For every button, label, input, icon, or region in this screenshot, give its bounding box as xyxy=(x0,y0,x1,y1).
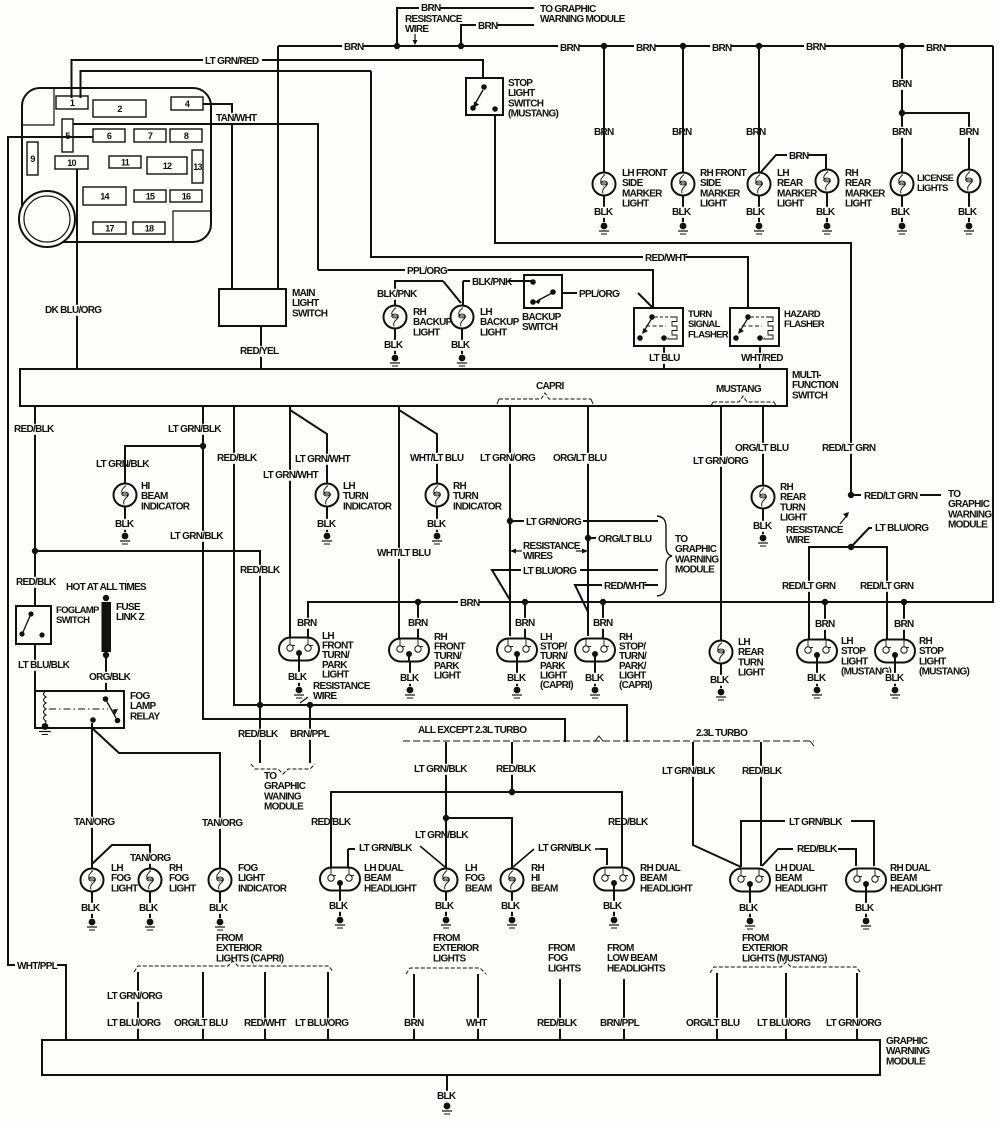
wire BLK RH capri ground stub xyxy=(594,661,596,686)
label RED/BLK xyxy=(535,1018,578,1029)
svg-text:11: 11 xyxy=(121,158,130,168)
junction RED/BLK fog circuit branch xyxy=(32,548,38,554)
svg-text:LIGHT: LIGHT xyxy=(413,327,440,338)
lamp RH fog light xyxy=(139,869,162,892)
svg-text:LT BLU/ORG: LT BLU/ORG xyxy=(875,523,929,534)
ground LH dual turbo xyxy=(747,918,754,925)
lamp LH fog light xyxy=(81,869,104,892)
svg-text:12: 12 xyxy=(163,161,172,171)
svg-text:TAN/ORG: TAN/ORG xyxy=(130,853,171,864)
label BLK xyxy=(814,207,835,218)
stop light switch pin output xyxy=(492,106,498,112)
wire BLK LH fog beam ground stub xyxy=(445,892,447,916)
label BLK xyxy=(737,903,758,914)
wire LT GRN/BLK drop (turbo) xyxy=(693,742,741,867)
label LT BLU/BLK xyxy=(16,660,75,671)
svg-text:BRN: BRN xyxy=(712,43,732,54)
turn signal flasher arm xyxy=(644,318,652,331)
wire BRN drop to LH front side marker xyxy=(603,46,605,172)
wire RED/LT GRN to RH stop light mustang xyxy=(851,547,887,639)
svg-text:HEADLIGHT: HEADLIGHT xyxy=(775,883,828,894)
ground RH front turn/park xyxy=(407,687,414,694)
wire LT GRN/BLK label line LH (turbo) xyxy=(741,821,785,867)
label BLK xyxy=(79,903,100,914)
svg-text:MODULE: MODULE xyxy=(264,802,304,813)
lamp LH dual beam headlight turbo xyxy=(730,869,770,892)
label RED/WHT xyxy=(242,1018,285,1029)
junction LT GRN/BLK branch xyxy=(443,815,449,821)
wire module input 1 (LT BLU/ORG) xyxy=(137,972,139,1040)
junction park bus LH capri stop xyxy=(522,599,528,605)
wire TAN/WHT fuse4 to main light switch xyxy=(203,104,232,289)
turn signal flasher dashed internal xyxy=(655,316,670,318)
relay contact arm xyxy=(106,700,116,718)
svg-text:LIGHT: LIGHT xyxy=(434,670,461,681)
wire TAN/ORG branch to fog light indicator xyxy=(92,728,220,868)
wire BRN/PPL drop to warning module xyxy=(309,705,311,763)
wire LT BLU/ORG to LH capri stop lamp xyxy=(492,570,658,600)
ground LH front turn/park xyxy=(296,687,303,694)
lamp LH turn indicator xyxy=(316,484,339,507)
svg-text:BLK: BLK xyxy=(81,903,101,914)
svg-text:WARNING MODULE: WARNING MODULE xyxy=(540,14,626,25)
label LT GRN/ORG capri xyxy=(478,453,537,464)
label LT BLU/ORG capri xyxy=(521,566,580,577)
wire BRN drop to LH rear marker xyxy=(758,46,760,172)
ground RH front side marker xyxy=(680,223,687,230)
svg-text:FLASHER: FLASHER xyxy=(784,319,825,330)
svg-text:WHT/LT BLU: WHT/LT BLU xyxy=(377,548,431,559)
svg-text:DK BLU/ORG: DK BLU/ORG xyxy=(45,305,102,316)
wire BLK RH rear turn ground stub xyxy=(762,509,764,534)
svg-text:BRN: BRN xyxy=(344,42,364,53)
wire WHT/LT BLU multifunction to RH front turn xyxy=(398,406,400,638)
svg-text:INDICATOR: INDICATOR xyxy=(238,883,288,894)
fuse 16 xyxy=(170,190,202,202)
label DK BLU/ORG xyxy=(43,305,102,316)
junction license branch xyxy=(899,110,905,116)
svg-text:BLK: BLK xyxy=(672,207,692,218)
wire resistance wire tick xyxy=(300,697,308,703)
wire BLK LH fog ground stub xyxy=(91,892,93,918)
svg-text:BRN: BRN xyxy=(408,618,428,629)
fuse 13 xyxy=(192,150,203,183)
wire LT BLU flasher to multifunction switch xyxy=(663,346,665,369)
svg-text:LIGHT: LIGHT xyxy=(622,199,649,210)
label LT GRN/ORG mustang xyxy=(691,456,750,467)
svg-text:RED/BLK: RED/BLK xyxy=(16,577,57,588)
wire BLK RH turn ground stub xyxy=(436,507,438,532)
label BRN/PPL xyxy=(598,1018,641,1029)
label BRN/PPL module xyxy=(288,729,331,740)
label BRN bus 4 xyxy=(710,43,731,54)
svg-text:TAN/ORG: TAN/ORG xyxy=(202,818,243,829)
wire module input 10 (LT BLU/ORG) xyxy=(785,973,787,1040)
label BLK xyxy=(207,903,228,914)
wire RED/BLK drop (turbo) xyxy=(760,742,762,866)
svg-text:BLK: BLK xyxy=(507,673,527,684)
wire resistance wires arrow right xyxy=(576,550,586,552)
bracket from exterior lights capri (dashed) xyxy=(134,961,333,972)
svg-text:LIGHT: LIGHT xyxy=(700,199,727,210)
label BLK xyxy=(601,901,622,912)
wire TAN/ORG relay to LH fog light xyxy=(91,723,93,868)
wire RED/BLK label line RH (turbo) xyxy=(838,849,856,866)
svg-text:LIGHTS: LIGHTS xyxy=(917,183,948,194)
wire DK BLU/ORG fuse10 to multifunction switch xyxy=(76,169,78,369)
lamp LH front turn/park light xyxy=(279,638,319,661)
bracket from exterior lights std (dashed) xyxy=(406,968,486,974)
ground RH turn indicator xyxy=(434,533,441,540)
svg-text:BRN: BRN xyxy=(478,21,498,32)
svg-text:LT GRN/BLK: LT GRN/BLK xyxy=(414,764,468,775)
svg-text:13: 13 xyxy=(193,162,202,172)
svg-text:BLK: BLK xyxy=(891,207,911,218)
svg-text:LT GRN/RED: LT GRN/RED xyxy=(205,56,259,67)
svg-text:LT BLU/ORG: LT BLU/ORG xyxy=(107,1018,161,1029)
svg-text:LT BLU/ORG: LT BLU/ORG xyxy=(295,1018,349,1029)
lamp LH stop/turn/park light capri xyxy=(497,639,537,662)
junction BRN bus at RH front marker xyxy=(680,43,686,49)
svg-text:TAN/WHT: TAN/WHT xyxy=(216,113,257,124)
svg-text:RED/LT GRN: RED/LT GRN xyxy=(782,581,836,592)
wire BLK RH front turn ground stub xyxy=(409,661,411,686)
svg-text:CAPRI: CAPRI xyxy=(536,381,565,392)
svg-text:PPL/ORG: PPL/ORG xyxy=(579,289,620,300)
fuse 12 xyxy=(147,157,187,174)
relay contact pin top xyxy=(103,696,109,702)
label RED/BLK fog switch xyxy=(14,577,57,588)
svg-text:RED/BLK: RED/BLK xyxy=(311,817,352,828)
svg-text:RED/BLK: RED/BLK xyxy=(797,844,838,855)
lamp RH stop/turn/park light capri xyxy=(575,639,615,662)
label BLK xyxy=(382,340,403,351)
svg-text:HEADLIGHT: HEADLIGHT xyxy=(364,883,417,894)
svg-text:2: 2 xyxy=(117,104,122,114)
svg-text:ORG/LT BLU: ORG/LT BLU xyxy=(735,443,789,454)
wire RED/BLK drop (std) xyxy=(511,742,513,792)
stop light switch U1 (mustang) box xyxy=(466,78,503,115)
relay contact pin output xyxy=(90,717,96,723)
svg-text:LT GRN/ORG: LT GRN/ORG xyxy=(826,1018,882,1029)
svg-text:LT GRN/BLK: LT GRN/BLK xyxy=(415,830,469,841)
svg-text:WIRES: WIRES xyxy=(523,551,553,562)
wire BLK LH front turn ground stub xyxy=(298,660,300,686)
ground license light 1 xyxy=(899,223,906,230)
wire LT GRN/WHT multifunction to LH turn indicator xyxy=(290,406,327,484)
fuse 6 xyxy=(93,129,125,142)
wire BLK fog indicator ground stub xyxy=(219,892,221,918)
wire TAN/WHT fuse5 feed to PPL/ORG line xyxy=(73,124,318,270)
fuse 1 xyxy=(56,96,88,109)
lamp LH fog beam xyxy=(435,869,458,892)
ground LH stop mustang xyxy=(814,687,821,694)
wire BRN spur to graphic warning module (upper) xyxy=(397,8,534,46)
relay contact moving end xyxy=(115,718,121,724)
label BLK xyxy=(956,207,977,218)
ground RH backup light xyxy=(392,355,399,362)
wire LT GRN/ORG capri drop xyxy=(509,406,511,636)
svg-text:ORG/BLK: ORG/BLK xyxy=(89,672,132,683)
wire arrow resistance wire pointer xyxy=(414,34,416,44)
label LT GRN/ORG xyxy=(105,991,164,1002)
lamp LH backup light xyxy=(451,306,474,329)
label BLK xyxy=(592,207,613,218)
wire module input 8 (BRN/PPL) xyxy=(623,979,625,1040)
wire BRN branch to second license lamp xyxy=(902,113,969,169)
foglamp switch box xyxy=(16,606,51,644)
wire BLK RH fog ground stub xyxy=(149,892,151,918)
wire BRN link LH rear to RH rear marker xyxy=(761,155,826,172)
wire RED/LT GRN to LH stop light mustang xyxy=(809,547,851,639)
relay coil xyxy=(44,691,47,725)
svg-text:BLK/PNK: BLK/PNK xyxy=(377,289,418,300)
svg-text:LT GRN/BLK: LT GRN/BLK xyxy=(96,459,150,470)
wire right border BRN down to park bus xyxy=(992,46,994,603)
ground license light 2 xyxy=(966,223,973,230)
wire LT GRN/BLK drop (std) xyxy=(445,742,447,868)
lamp RH rear turn light xyxy=(752,486,775,509)
wire RED/BLK label line LH (turbo) xyxy=(762,849,793,866)
svg-text:BLK: BLK xyxy=(501,901,521,912)
fuse 9 xyxy=(27,142,38,175)
label BLK module xyxy=(435,1091,456,1102)
svg-text:BRN: BRN xyxy=(746,127,766,138)
wire BLK LH mustang ground stub xyxy=(816,662,818,686)
wire fuse1 second feed to RED/WHT riser xyxy=(81,71,372,98)
fuse 18 xyxy=(133,222,165,234)
svg-text:BLK: BLK xyxy=(807,673,827,684)
svg-text:BLK: BLK xyxy=(739,903,759,914)
svg-text:LIGHT: LIGHT xyxy=(169,883,196,894)
lamp LH rear turn light xyxy=(710,641,733,664)
wire LT GRN/BLK multifunction down xyxy=(203,406,565,742)
svg-text:(MUSTANG): (MUSTANG) xyxy=(919,667,970,678)
label RED/LT GRN LH stop xyxy=(780,581,839,592)
turn signal flasher pin bottom xyxy=(661,335,667,341)
wire BLK LH front marker ground stub xyxy=(603,196,605,222)
svg-text:BRN/PPL: BRN/PPL xyxy=(600,1018,640,1029)
svg-text:6: 6 xyxy=(107,131,112,141)
wire module input 3 (RED/WHT) xyxy=(264,972,266,1040)
lamp LH dual beam headlight xyxy=(320,868,360,891)
wire BRN drop to RH front side marker xyxy=(682,46,684,172)
wire LT GRN/RED from fuse 1 to stop light switch xyxy=(72,60,484,98)
foglamp switch pin bottom-left xyxy=(19,631,24,636)
wire BLK RH hi beam ground stub xyxy=(511,892,513,916)
fuse 15 xyxy=(134,190,166,202)
lamp LH front side marker light xyxy=(593,173,616,196)
svg-text:BRN/PPL: BRN/PPL xyxy=(290,729,330,740)
ground RH hi beam xyxy=(509,917,516,924)
lamp LH rear marker light xyxy=(748,173,771,196)
label LT GRN/RED xyxy=(203,56,262,67)
svg-text:INDICATOR: INDICATOR xyxy=(141,501,191,512)
svg-text:WHT/LT BLU: WHT/LT BLU xyxy=(410,453,464,464)
fuse 7 xyxy=(134,129,166,142)
label WHT xyxy=(464,1018,485,1029)
lamp license light 2 xyxy=(958,170,981,193)
label BRN (top spur) xyxy=(419,3,440,14)
label BRN bus 1 xyxy=(342,42,363,53)
lamp RH backup light xyxy=(384,306,407,329)
svg-text:ORG/LT BLU: ORG/LT BLU xyxy=(553,453,607,464)
label BLK xyxy=(751,521,772,532)
label BLK/PNK left xyxy=(375,289,418,300)
label LT BLU/ORG xyxy=(293,1018,352,1029)
hazard flasher pin bottom xyxy=(757,335,763,341)
wire ORG/LT BLU to module brace xyxy=(588,537,650,539)
svg-text:BLK: BLK xyxy=(603,901,623,912)
wire BLK/PNK backup switch to LH backup light xyxy=(509,280,533,282)
lamp RH hi beam xyxy=(501,869,524,892)
fuse 2 xyxy=(93,100,146,117)
svg-text:LT GRN/ORG: LT GRN/ORG xyxy=(693,456,749,467)
wire module input 2 (ORG/LT BLU) xyxy=(202,972,204,1040)
svg-text:BLK: BLK xyxy=(451,340,471,351)
svg-text:RED/BLK: RED/BLK xyxy=(742,766,783,777)
junction RED/LT GRN module spur xyxy=(848,492,854,498)
svg-text:(CAPRI): (CAPRI) xyxy=(619,680,652,691)
svg-text:LIGHT: LIGHT xyxy=(738,668,765,679)
svg-text:HEADLIGHT: HEADLIGHT xyxy=(640,883,693,894)
hazard flasher box xyxy=(730,308,779,346)
svg-text:MODULE: MODULE xyxy=(948,520,988,531)
svg-text:LT GRN/BLK: LT GRN/BLK xyxy=(538,843,592,854)
ground RH dual turbo xyxy=(863,918,870,925)
svg-text:LIGHTS: LIGHTS xyxy=(548,963,581,974)
label WHT/RED xyxy=(739,353,782,364)
ground RH fog light xyxy=(147,919,154,926)
brace to graphic warning module (capri group) xyxy=(657,516,672,596)
label RED/BLK xyxy=(12,424,55,435)
label LT GRN/BLK std xyxy=(412,764,471,775)
svg-text:LT GRN/ORG: LT GRN/ORG xyxy=(107,991,163,1002)
label BRN RH front turn xyxy=(406,618,427,629)
svg-text:2.3L TURBO: 2.3L TURBO xyxy=(696,728,748,739)
ground LH capri stop lamp xyxy=(514,687,521,694)
svg-text:BRN: BRN xyxy=(636,43,656,54)
svg-text:LINK Z: LINK Z xyxy=(116,612,145,623)
label BLK xyxy=(670,207,691,218)
svg-text:15: 15 xyxy=(146,192,155,202)
svg-text:LIGHTS: LIGHTS xyxy=(433,953,466,964)
wire BRN drop LH capri stop xyxy=(524,602,526,639)
svg-text:LT GRN/BLK: LT GRN/BLK xyxy=(789,817,843,828)
lamp RH front side marker light xyxy=(672,173,695,196)
lamp RH rear marker light xyxy=(816,170,839,193)
foglamp switch pin top xyxy=(28,611,33,616)
main light switch box xyxy=(219,289,286,326)
svg-text:BRN: BRN xyxy=(404,1018,424,1029)
svg-text:BLK: BLK xyxy=(437,1091,457,1102)
relay dash-dot link xyxy=(49,708,108,710)
label LT GRN/BLK turbo xyxy=(660,766,719,777)
resistor hazard flasher heater xyxy=(764,317,773,339)
label BLK xyxy=(315,519,336,530)
junction RED/LT GRN stop split xyxy=(848,544,854,550)
junction park bus RH capri stop xyxy=(600,599,606,605)
label BRN bus 3 xyxy=(634,43,655,54)
wire LT GRN/ORG mustang to LH rear turn xyxy=(720,406,722,640)
svg-text:BRN: BRN xyxy=(815,619,835,630)
wire BLK LH turbo ground stub xyxy=(749,891,751,917)
svg-text:LT GRN/BLK: LT GRN/BLK xyxy=(359,843,413,854)
wire BRN drop LH mustang stop xyxy=(824,602,826,640)
svg-text:HOT AT ALL TIMES: HOT AT ALL TIMES xyxy=(66,582,147,593)
fuse 11 xyxy=(109,156,141,168)
svg-text:(CAPRI): (CAPRI) xyxy=(540,680,573,691)
label ORG/BLK xyxy=(87,672,130,683)
hazard flasher pin left xyxy=(733,335,739,341)
svg-text:RED/WHT: RED/WHT xyxy=(645,253,687,264)
svg-text:BRN: BRN xyxy=(892,79,912,90)
wire BRN bus (top) xyxy=(278,45,993,47)
wire module input 6 (WHT) xyxy=(477,974,479,1040)
svg-text:TAN/ORG: TAN/ORG xyxy=(74,817,115,828)
hazard flasher pin top xyxy=(745,314,751,320)
wire BRN drop RH mustang stop xyxy=(903,602,905,640)
graphic warning module box xyxy=(42,1040,880,1075)
wire LT BLU/ORG diagonal to module xyxy=(851,528,872,547)
svg-text:BLK: BLK xyxy=(209,903,229,914)
svg-text:BRN: BRN xyxy=(460,598,480,609)
svg-text:BRN: BRN xyxy=(560,43,580,54)
ground LH dual headlight xyxy=(337,917,344,924)
wire LT GRN/BLK pointer RH hi beam xyxy=(513,849,534,867)
wire BLK LH rear marker ground stub xyxy=(758,196,760,222)
fuse 10 xyxy=(55,156,88,169)
lamp RH turn indicator xyxy=(426,484,449,507)
svg-text:BLK: BLK xyxy=(317,519,337,530)
svg-text:BLK: BLK xyxy=(885,673,905,684)
wire BLK LH backup ground stub xyxy=(461,329,463,354)
svg-text:LIGHT: LIGHT xyxy=(111,883,138,894)
label BRN LH front turn xyxy=(295,618,316,629)
label TAN/WHT xyxy=(214,113,257,124)
lamp hi beam indicator xyxy=(114,484,137,507)
wire BLK RH backup ground stub xyxy=(394,329,396,354)
svg-text:BLK: BLK xyxy=(855,903,875,914)
wire WHT/PPL left border to module xyxy=(57,965,66,1040)
svg-text:LT GRN/ORG: LT GRN/ORG xyxy=(526,517,582,528)
svg-text:LT GRN/WHT: LT GRN/WHT xyxy=(295,454,351,465)
wire BLK LH capri ground stub xyxy=(516,661,518,686)
hazard flasher dashed internal xyxy=(751,316,766,318)
junction LT GRN/ORG module line xyxy=(507,518,513,524)
label BRN RH mustang xyxy=(892,619,913,630)
svg-text:FLASHER: FLASHER xyxy=(688,329,729,340)
svg-text:RED/YEL: RED/YEL xyxy=(240,346,279,357)
resistor turn signal flasher heater xyxy=(668,317,677,339)
label BLK xyxy=(433,901,454,912)
junction BRN bus at LH rear marker xyxy=(756,43,762,49)
stop light switch contact arm xyxy=(475,90,483,104)
wire RED/BLK multifunction to headlight bus xyxy=(234,406,627,742)
svg-text:WHT/RED: WHT/RED xyxy=(741,353,783,364)
label LT GRN/ORG brace xyxy=(524,517,583,528)
label BRN license 1 xyxy=(890,127,911,138)
fuse 4 xyxy=(171,97,203,110)
wire WHT/RED flasher to multifunction switch xyxy=(759,346,761,369)
label BLK xyxy=(853,903,874,914)
svg-text:RED/LT GRN: RED/LT GRN xyxy=(864,491,918,502)
svg-text:LT BLU/ORG: LT BLU/ORG xyxy=(757,1018,811,1029)
wire BRN drop to license lights xyxy=(901,46,903,172)
ground hi beam indicator xyxy=(122,533,129,540)
lamp license light 1 xyxy=(891,173,914,196)
svg-text:WHT: WHT xyxy=(466,1018,487,1029)
